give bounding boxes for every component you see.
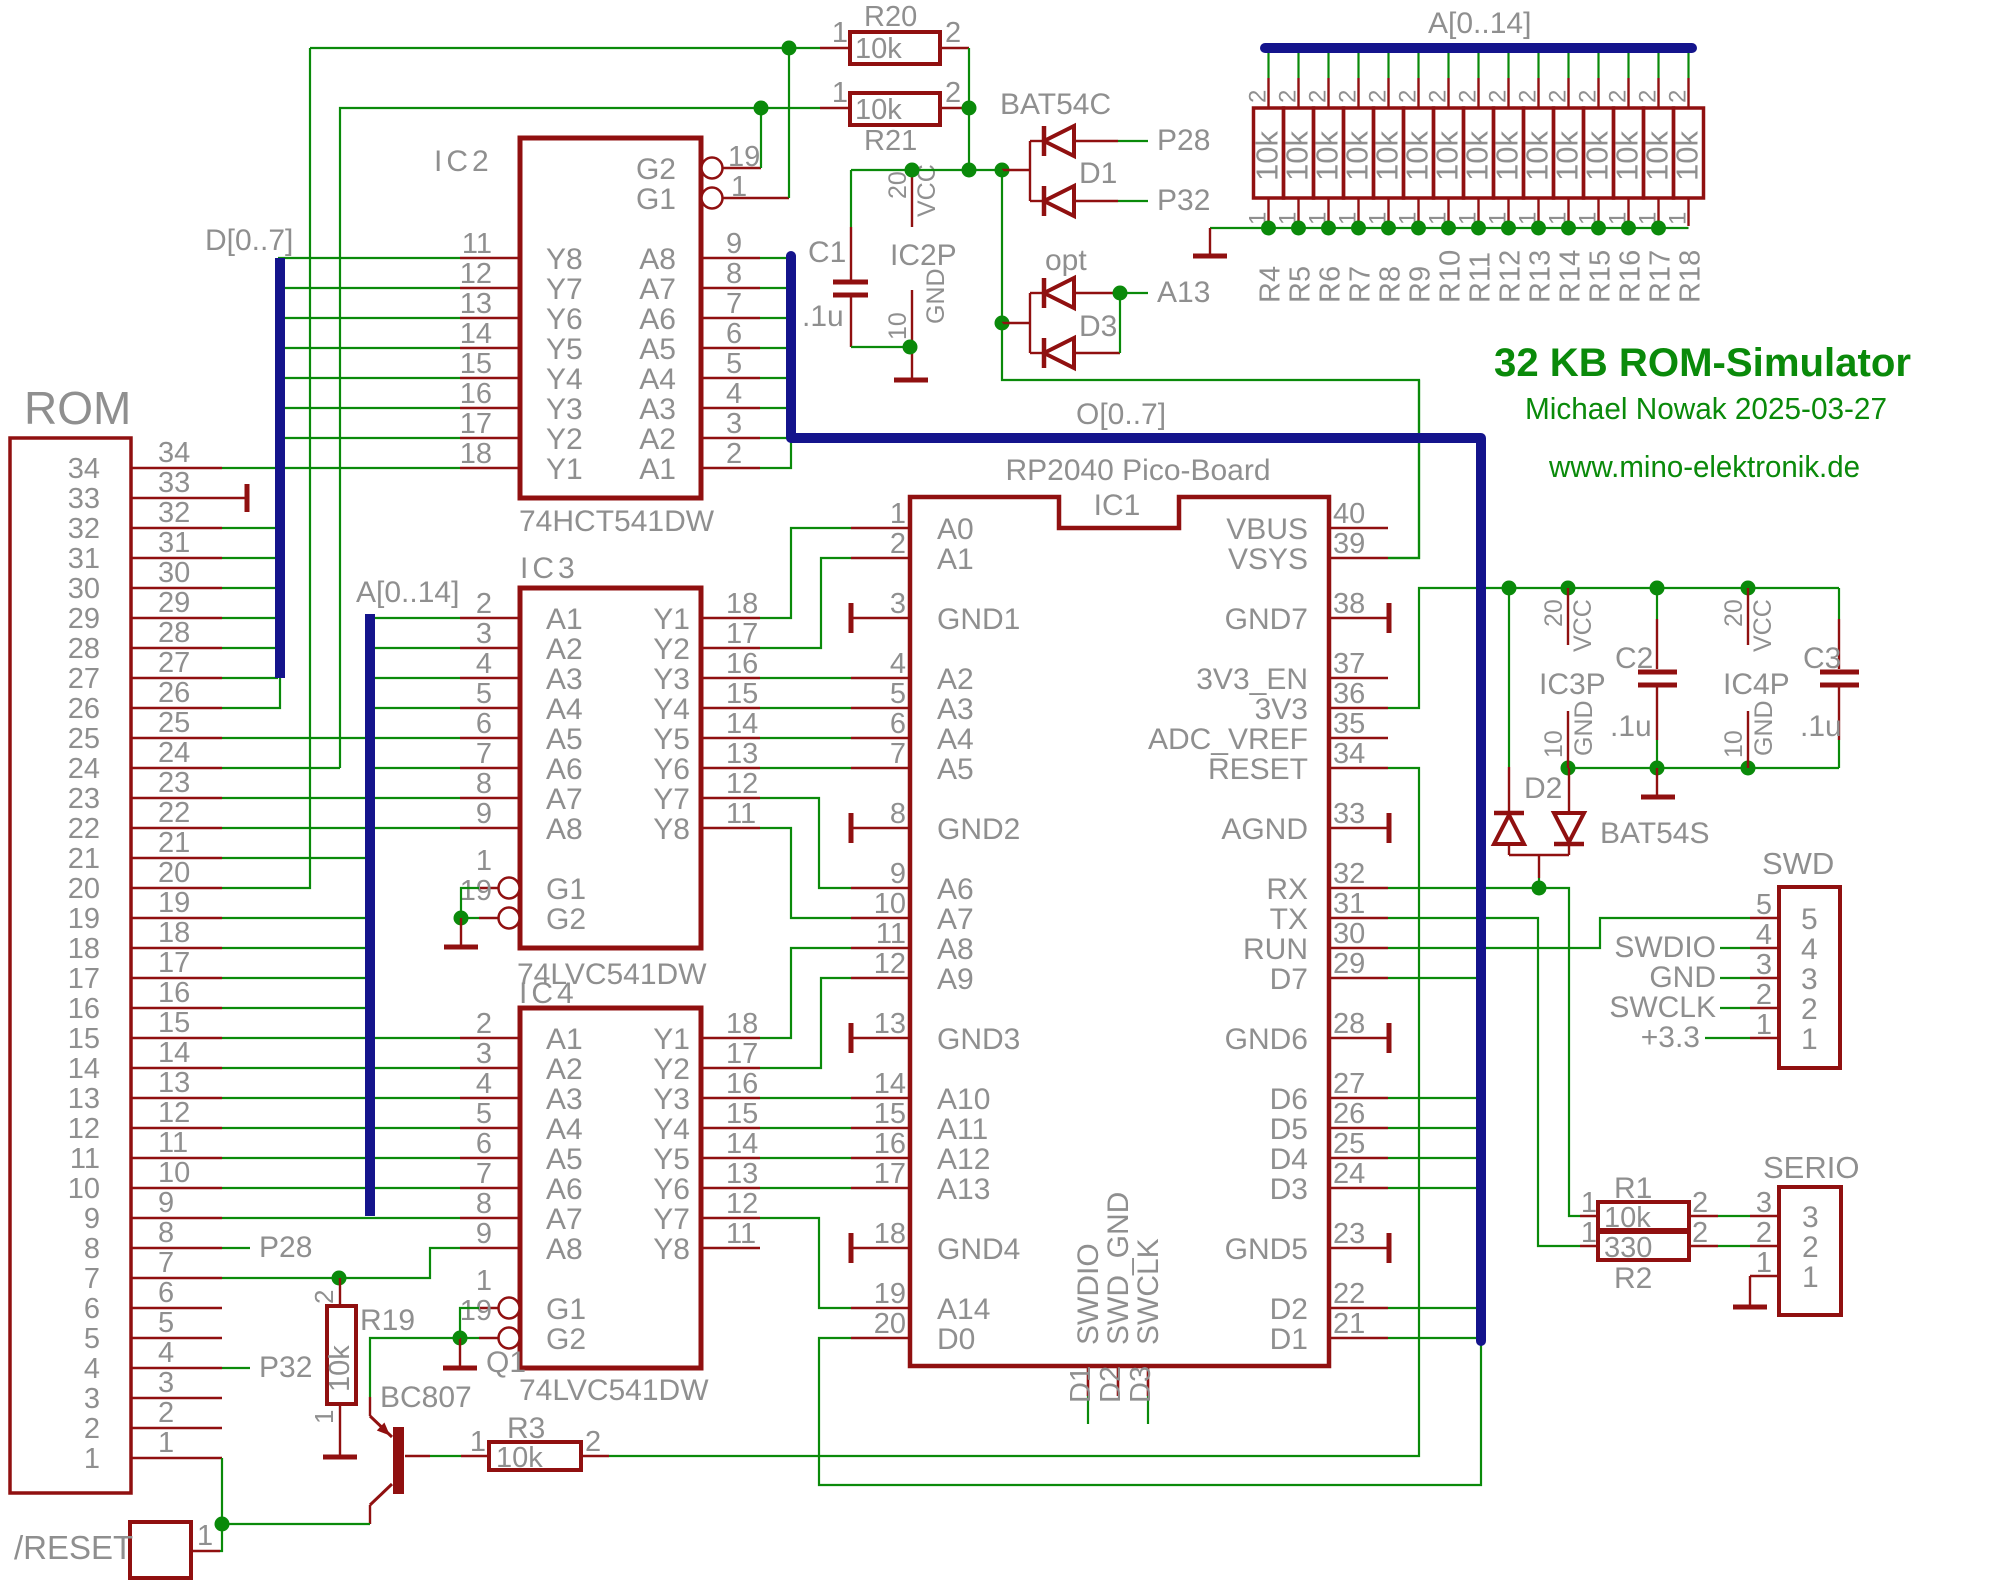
- svg-text:GND: GND: [1750, 700, 1778, 756]
- wire IC2 A5 to O bus: [760, 347, 791, 349]
- resistor R20: [820, 1, 969, 65]
- svg-text:12: 12: [158, 1097, 190, 1129]
- svg-text:D1: D1: [1065, 1366, 1097, 1403]
- wire IC2 Y3 to D bus: [278, 407, 460, 409]
- svg-text:4: 4: [476, 1068, 492, 1100]
- svg-text:Y6: Y6: [546, 303, 583, 336]
- wire A bus to IC3: [372, 827, 460, 829]
- svg-text:/RESET: /RESET: [14, 1529, 133, 1566]
- svg-text:A4: A4: [937, 723, 974, 756]
- wire IC3 Y3 to IC1 A2: [760, 677, 851, 679]
- svg-text:5: 5: [1801, 903, 1818, 936]
- buffer IC3 74LVC541DW: [517, 552, 707, 991]
- svg-text:VBUS: VBUS: [1226, 513, 1308, 546]
- svg-text:6: 6: [890, 708, 906, 740]
- svg-text:6: 6: [158, 1277, 174, 1309]
- IC1 pin 18 GND4: [851, 1218, 1020, 1266]
- SWD pin 1: [1750, 1009, 1818, 1056]
- svg-text:22: 22: [158, 797, 190, 829]
- resistor R1 10k: [1580, 1172, 1718, 1234]
- svg-text:Y4: Y4: [546, 363, 583, 396]
- svg-text:A6: A6: [639, 303, 676, 336]
- svg-text:R8: R8: [1375, 266, 1407, 303]
- svg-text:D3: D3: [1270, 1173, 1308, 1206]
- wire A bus to IC3: [372, 677, 460, 679]
- svg-text:32 KB ROM-Simulator: 32 KB ROM-Simulator: [1494, 341, 1911, 385]
- wire D1 net P32: [1118, 184, 1210, 217]
- svg-text:IC2: IC2: [434, 145, 493, 178]
- svg-text:ROM: ROM: [24, 382, 131, 434]
- SWD pin 4: [1750, 919, 1818, 966]
- svg-text:14: 14: [726, 1128, 758, 1160]
- wire IC2 A4 to O bus: [760, 377, 791, 379]
- svg-text:12: 12: [874, 948, 906, 980]
- svg-text:4: 4: [1801, 933, 1818, 966]
- ROM pin 8: [84, 1217, 222, 1265]
- wire IC4 Y4 to IC1 A11: [760, 1127, 851, 1129]
- IC2 pin 16 Y3: [460, 378, 583, 426]
- svg-text:Y4: Y4: [653, 1113, 690, 1146]
- svg-text:A8: A8: [546, 1233, 583, 1266]
- svg-text:5: 5: [476, 1098, 492, 1130]
- svg-text:20: 20: [68, 873, 100, 905]
- svg-text:28: 28: [1333, 1008, 1365, 1040]
- svg-text:2: 2: [585, 1426, 601, 1458]
- svg-text:A[0..14]: A[0..14]: [1428, 7, 1531, 40]
- svg-text:VCC: VCC: [1569, 599, 1597, 652]
- wire R21 pin1 net: [340, 101, 820, 769]
- svg-text:VSYS: VSYS: [1228, 543, 1308, 576]
- svg-text:31: 31: [158, 527, 190, 559]
- svg-text:19: 19: [158, 887, 190, 919]
- svg-text:9: 9: [726, 228, 742, 260]
- svg-text:2: 2: [1801, 993, 1818, 1026]
- svg-text:24: 24: [1333, 1158, 1365, 1190]
- ground IC3 enable: [444, 918, 478, 947]
- svg-text:1: 1: [832, 17, 848, 49]
- ROM pin 28: [68, 617, 222, 665]
- svg-text:14: 14: [460, 318, 492, 350]
- svg-text:2: 2: [158, 1397, 174, 1429]
- wire ROM pin 32 to D bus: [222, 527, 278, 529]
- IC2 pin 8 A7: [639, 258, 760, 306]
- IC1 pin 11 A8: [851, 918, 974, 966]
- svg-text:Y7: Y7: [546, 273, 583, 306]
- svg-text:+3.3: +3.3: [1641, 1021, 1700, 1054]
- svg-text:9: 9: [84, 1203, 100, 1235]
- IC1 pin 40 VBUS: [1226, 498, 1388, 546]
- bus A[0..14] vertical: [356, 576, 459, 1216]
- svg-text:31: 31: [68, 543, 100, 575]
- svg-text:18: 18: [874, 1218, 906, 1250]
- wire A bus to IC3: [372, 617, 460, 619]
- svg-text:C3: C3: [1803, 642, 1841, 675]
- IC1 pin 15 A11: [851, 1098, 988, 1146]
- diode D1 BAT54C: [1000, 88, 1118, 216]
- IC2 pin 18 Y1: [460, 438, 583, 486]
- svg-text:1: 1: [1756, 1247, 1772, 1279]
- svg-text:1: 1: [309, 1410, 339, 1424]
- wire ROM pin 20 to R20: [222, 48, 310, 888]
- IC1 pin 25 D4: [1270, 1128, 1388, 1176]
- svg-text:SWCLK: SWCLK: [1132, 1238, 1165, 1345]
- IC4 pin 13 Y6: [653, 1158, 760, 1206]
- svg-text:Y3: Y3: [653, 1083, 690, 1116]
- resistor R11 10k: [1455, 52, 1497, 303]
- svg-text:P28: P28: [259, 1231, 312, 1264]
- IC1 pin 17 A13: [851, 1158, 990, 1206]
- svg-text:P32: P32: [259, 1351, 312, 1384]
- wire D3 net A13: [1113, 276, 1211, 353]
- wire IC2 A2 to O bus: [760, 437, 791, 439]
- svg-text:34: 34: [68, 453, 100, 485]
- svg-text:29: 29: [158, 587, 190, 619]
- IC1 pin 6 A4: [851, 708, 974, 756]
- svg-text:2: 2: [1802, 1231, 1819, 1264]
- svg-text:10k: 10k: [1604, 1202, 1651, 1234]
- svg-text:16: 16: [460, 378, 492, 410]
- svg-text:35: 35: [1333, 708, 1365, 740]
- IC1 pin 5 A3: [851, 678, 974, 726]
- svg-text:9: 9: [476, 798, 492, 830]
- svg-text:20: 20: [158, 857, 190, 889]
- resistor R8 10k: [1365, 52, 1407, 303]
- svg-text:A12: A12: [937, 1143, 990, 1176]
- svg-text:R11: R11: [1465, 252, 1497, 303]
- svg-text:VCC: VCC: [1749, 599, 1777, 652]
- svg-text:1: 1: [84, 1443, 100, 1475]
- IC4 pin 15 Y4: [653, 1098, 760, 1146]
- svg-text:1: 1: [1665, 212, 1692, 225]
- IC1 pin 10 A7: [851, 888, 974, 936]
- svg-text:4: 4: [476, 648, 492, 680]
- IC2 pin 14 Y5: [460, 318, 583, 366]
- svg-text:21: 21: [68, 843, 100, 875]
- svg-text:31: 31: [1333, 888, 1365, 920]
- svg-text:Y7: Y7: [653, 783, 690, 816]
- wire D7 to O bus: [1388, 977, 1477, 979]
- svg-text:A1: A1: [937, 543, 974, 576]
- svg-text:7: 7: [476, 738, 492, 770]
- svg-text:13: 13: [726, 1158, 758, 1190]
- svg-text:Y2: Y2: [653, 633, 690, 666]
- svg-text:G2: G2: [636, 153, 676, 186]
- resistor R12 10k: [1485, 52, 1527, 303]
- wire ROM pin 7 to IC4 A8 and R19: [222, 1248, 460, 1286]
- svg-text:Y1: Y1: [653, 1023, 690, 1056]
- svg-text:2: 2: [945, 17, 961, 49]
- svg-text:2: 2: [1245, 90, 1272, 103]
- svg-text:RUN: RUN: [1243, 933, 1308, 966]
- svg-text:A2: A2: [937, 663, 974, 696]
- svg-text:R2: R2: [1614, 1262, 1652, 1295]
- svg-text:3: 3: [84, 1383, 100, 1415]
- svg-text:2: 2: [726, 438, 742, 470]
- wire D3 to O bus: [1388, 1187, 1477, 1189]
- IC4 pin 18 Y1: [653, 1008, 760, 1056]
- transistor Q1 BC807: [370, 1381, 472, 1524]
- svg-text:Y2: Y2: [653, 1053, 690, 1086]
- svg-text:R7: R7: [1345, 266, 1377, 303]
- wire VSYS: [1388, 380, 1419, 558]
- svg-text:A0: A0: [937, 513, 974, 546]
- svg-text:12: 12: [726, 1188, 758, 1220]
- svg-text:4: 4: [890, 648, 906, 680]
- ROM pin 17: [68, 947, 222, 995]
- wire D6 to O bus: [1388, 1097, 1477, 1099]
- IC4 pin 1 G1: [476, 1265, 586, 1326]
- ROM pin 31: [68, 527, 222, 575]
- svg-text:23: 23: [158, 767, 190, 799]
- svg-text:Y8: Y8: [653, 813, 690, 846]
- IC4 pin 6 A5: [460, 1128, 583, 1176]
- svg-text:10: 10: [68, 1173, 100, 1205]
- IC1 pin 7 A5: [851, 738, 974, 786]
- svg-text:34: 34: [158, 437, 190, 469]
- wire IC2 A7 to O bus: [760, 287, 791, 289]
- svg-text:A13: A13: [937, 1173, 990, 1206]
- svg-text:25: 25: [158, 707, 190, 739]
- resistor R18 10k: [1665, 52, 1707, 303]
- svg-text:3: 3: [1802, 1201, 1819, 1234]
- svg-text:A7: A7: [937, 903, 974, 936]
- capacitor C1: [802, 170, 910, 347]
- ground C2: [1641, 768, 1675, 797]
- IC4 pin 2 A1: [460, 1008, 583, 1056]
- IC1 pin 13 GND3: [851, 1008, 1020, 1056]
- svg-text:17: 17: [158, 947, 190, 979]
- svg-text:GND6: GND6: [1225, 1023, 1308, 1056]
- svg-text:33: 33: [158, 467, 190, 499]
- svg-text:28: 28: [68, 633, 100, 665]
- IC1 pin 36 3V3: [1255, 678, 1388, 726]
- IC1 pin 22 D2: [1270, 1278, 1388, 1326]
- SWD pin 5: [1750, 889, 1818, 936]
- svg-text:5: 5: [476, 678, 492, 710]
- svg-text:26: 26: [68, 693, 100, 725]
- wire IC3 G1 G2 gnd: [454, 888, 480, 926]
- resistor R13 10k: [1515, 52, 1557, 303]
- svg-text:G2: G2: [546, 1323, 586, 1356]
- svg-text:17: 17: [726, 1038, 758, 1070]
- wire IC3 Y2 to IC1 A1: [760, 558, 851, 648]
- IC3 pin 9 A8: [460, 798, 583, 846]
- svg-text:8: 8: [890, 798, 906, 830]
- connector ROM: [10, 382, 131, 1493]
- IC1 pin 23 GND5: [1225, 1218, 1389, 1266]
- svg-text:R13: R13: [1525, 250, 1557, 303]
- resistor R6 10k: [1305, 52, 1347, 303]
- wire IC3 Y6 to IC1 A5: [760, 767, 851, 769]
- svg-text:5: 5: [1756, 889, 1772, 921]
- svg-text:6: 6: [84, 1293, 100, 1325]
- wire D1 net P28: [1118, 124, 1210, 157]
- wire /RESET pin to node: [220, 1524, 222, 1551]
- svg-text:24: 24: [158, 737, 190, 769]
- IC1 pin 38 GND7: [1225, 588, 1389, 636]
- svg-text:2: 2: [84, 1413, 100, 1445]
- svg-text:R15: R15: [1585, 250, 1617, 303]
- svg-text:D3: D3: [1079, 310, 1117, 343]
- IC3 pin 16 Y3: [653, 648, 760, 696]
- SERIO pin 1: [1750, 1247, 1819, 1294]
- IC1 pin 32 RX: [1266, 858, 1388, 906]
- wire D0 to O bus: [819, 1338, 1481, 1485]
- svg-text:2: 2: [945, 77, 961, 109]
- ROM pin 13: [68, 1067, 222, 1115]
- wire GND rail: [1561, 761, 1840, 776]
- svg-text:GND: GND: [1570, 700, 1598, 756]
- svg-text:13: 13: [460, 288, 492, 320]
- wire ROM pin 17 to A bus: [222, 977, 368, 979]
- svg-text:A3: A3: [639, 393, 676, 426]
- svg-text:19: 19: [460, 875, 492, 907]
- resistor R3 10k: [461, 1412, 609, 1474]
- IC4 pin 3 A2: [460, 1038, 583, 1086]
- svg-text:8: 8: [84, 1233, 100, 1265]
- connector SERIO: [1763, 1150, 1859, 1315]
- svg-text:14: 14: [874, 1068, 906, 1100]
- svg-text:C1: C1: [808, 236, 846, 269]
- svg-text:11: 11: [462, 228, 492, 260]
- IC2 pin 3 A2: [639, 408, 760, 456]
- IC4 pin 16 Y3: [653, 1068, 760, 1116]
- IC2 pin 9 A8: [639, 228, 760, 276]
- svg-text:5: 5: [890, 678, 906, 710]
- svg-text:26: 26: [1333, 1098, 1365, 1130]
- wire IC2 Y7 to D bus: [278, 287, 460, 289]
- wire IC3 Y5 to IC1 A4: [760, 737, 851, 739]
- wire ROM pin 9 to IC4 A7: [222, 1217, 460, 1219]
- wire ROM pin 28 to D bus: [222, 647, 278, 649]
- svg-text:AGND: AGND: [1221, 813, 1308, 846]
- svg-text:22: 22: [1333, 1278, 1365, 1310]
- svg-text:4: 4: [158, 1337, 174, 1369]
- svg-text:D2: D2: [1524, 772, 1562, 805]
- svg-text:11: 11: [726, 798, 756, 830]
- svg-text:A7: A7: [546, 783, 583, 816]
- IC1 pin 4 A2: [851, 648, 974, 696]
- svg-text:P32: P32: [1157, 184, 1210, 217]
- wire ROM pin 21 to A bus: [222, 857, 368, 859]
- SERIO pin 2: [1750, 1217, 1819, 1264]
- svg-text:A1: A1: [546, 603, 583, 636]
- svg-text:R6: R6: [1315, 266, 1347, 303]
- svg-text:16: 16: [726, 648, 758, 680]
- svg-text:2: 2: [476, 588, 492, 620]
- svg-text:2: 2: [1455, 90, 1482, 103]
- IC1 pin 21 D1: [1270, 1308, 1388, 1356]
- svg-text:7: 7: [726, 288, 742, 320]
- svg-text:15: 15: [874, 1098, 906, 1130]
- IC4 pin 5 A4: [460, 1098, 583, 1146]
- IC1 pin 2 A1: [851, 528, 974, 576]
- wire IC2 G2 to R21: [760, 108, 762, 168]
- power symbol IC3P: [1539, 588, 1606, 768]
- resistor R16 10k: [1605, 52, 1647, 303]
- wire TX: [1388, 918, 1580, 1246]
- wire VCC rail IC2P: [851, 163, 1010, 178]
- svg-text:30: 30: [68, 573, 100, 605]
- wire A bus to IC3: [372, 767, 460, 769]
- svg-text:20: 20: [874, 1308, 906, 1340]
- svg-text:18: 18: [726, 1008, 758, 1040]
- svg-text:R17: R17: [1645, 250, 1677, 303]
- svg-text:16: 16: [874, 1128, 906, 1160]
- svg-text:3V3: 3V3: [1255, 693, 1308, 726]
- svg-text:BAT54C: BAT54C: [1000, 88, 1111, 121]
- svg-text:6: 6: [476, 1128, 492, 1160]
- wire IC2 Y6 to D bus: [278, 317, 460, 319]
- svg-text:2: 2: [1756, 1217, 1772, 1249]
- ROM pin 9: [84, 1187, 222, 1235]
- svg-text:3: 3: [1756, 949, 1772, 981]
- ROM pin 18: [68, 917, 222, 965]
- svg-text:24: 24: [68, 753, 100, 785]
- IC2 pin 19 G2: [636, 141, 761, 186]
- svg-text:5: 5: [84, 1323, 100, 1355]
- wire R1 to SERIO 3: [1718, 1215, 1750, 1217]
- svg-text:10k: 10k: [855, 33, 902, 65]
- wire IC2 A6 to O bus: [760, 317, 791, 319]
- svg-text:5: 5: [726, 348, 742, 380]
- ROM pin 3: [84, 1367, 222, 1415]
- wire IC4 Y6 to IC1 A13: [760, 1187, 851, 1189]
- ROM pin 21: [68, 827, 222, 875]
- ground resistor array: [1193, 228, 1227, 256]
- SWD pin 3: [1750, 949, 1818, 996]
- svg-text:14: 14: [726, 708, 758, 740]
- wire IC4 G1 G2 node: [453, 1308, 480, 1346]
- svg-text:8: 8: [476, 1188, 492, 1220]
- ground IC4 enable: [443, 1338, 477, 1368]
- IC2 pin 11 Y8: [460, 228, 583, 276]
- IC2 pin 12 Y7: [460, 258, 583, 306]
- svg-text:20: 20: [1720, 599, 1748, 627]
- svg-text:D4: D4: [1270, 1143, 1308, 1176]
- wire VCC rail: [1502, 581, 1840, 596]
- resistor R10 10k: [1425, 52, 1467, 303]
- IC1 pin 30 RUN: [1243, 918, 1388, 966]
- ROM pin 14: [68, 1037, 222, 1085]
- resistor R15 10k: [1575, 52, 1617, 303]
- svg-text:2: 2: [890, 528, 906, 560]
- svg-text:A3: A3: [546, 663, 583, 696]
- svg-text:27: 27: [68, 663, 100, 695]
- resistor R5 10k: [1275, 52, 1317, 303]
- IC1 pin 24 D3: [1270, 1158, 1388, 1206]
- svg-text:15: 15: [68, 1023, 100, 1055]
- svg-text:7: 7: [890, 738, 906, 770]
- IC3 pin 7 A6: [460, 738, 583, 786]
- svg-text:11: 11: [876, 918, 906, 950]
- wire IC4 Y3 to IC1 A10: [760, 1097, 851, 1099]
- svg-text:10: 10: [874, 888, 906, 920]
- svg-text:8: 8: [158, 1217, 174, 1249]
- svg-text:7: 7: [476, 1158, 492, 1190]
- svg-text:1: 1: [1802, 1261, 1819, 1294]
- svg-text:3: 3: [1801, 963, 1818, 996]
- svg-text:3: 3: [476, 618, 492, 650]
- svg-text:Y6: Y6: [653, 753, 690, 786]
- IC1 pin D1 SWDIO: [1065, 1243, 1105, 1424]
- svg-text:IC4: IC4: [519, 977, 578, 1010]
- svg-text:19: 19: [68, 903, 100, 935]
- bus A[0..14] top: [1265, 7, 1692, 48]
- ROM pin 2: [84, 1397, 222, 1445]
- svg-text:IC1: IC1: [1094, 489, 1141, 522]
- wire ROM pin 24 to R21: [222, 767, 340, 769]
